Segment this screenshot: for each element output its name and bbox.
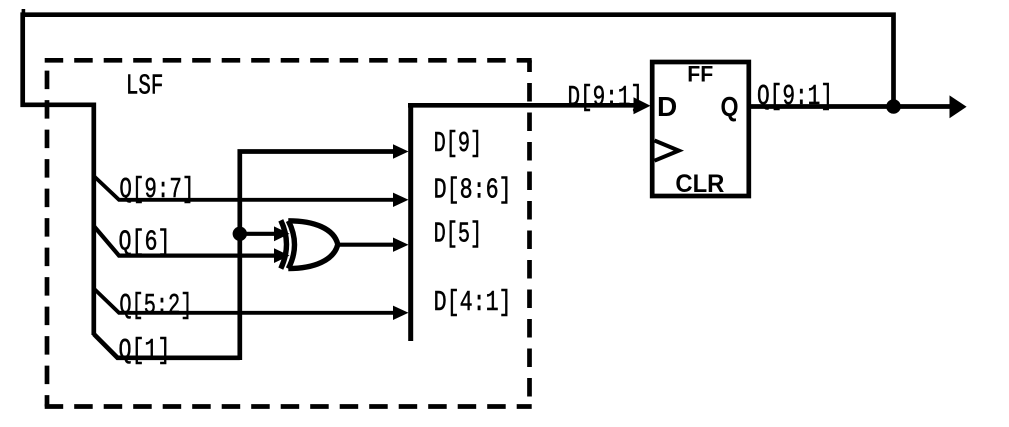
- svg-text:D: D: [657, 91, 677, 122]
- LSF dashed box top edge: [45, 58, 532, 63]
- svg-text:CLR: CLR: [675, 170, 724, 198]
- left bus wire: [91, 103, 96, 336]
- xor gate U1: [281, 220, 338, 268]
- svg-text:FF: FF: [687, 62, 713, 87]
- svg-text:LSF: LSF: [126, 70, 163, 103]
- svg-text:Q: Q: [721, 91, 739, 122]
- svg-text:Q[9:7]: Q[9:7]: [119, 173, 194, 206]
- svg-text:Q[5:2]: Q[5:2]: [119, 289, 192, 322]
- LSF dashed box right edge: [527, 60, 532, 406]
- svg-text:D[4:1]: D[4:1]: [434, 286, 512, 319]
- arrowhead XOR lower input: [274, 248, 290, 263]
- arrowhead into FF D input: [634, 97, 651, 114]
- svg-text:Q[9:1]: Q[9:1]: [757, 80, 833, 113]
- arrowhead D[5]: [393, 238, 409, 252]
- node: output junction: [886, 99, 901, 114]
- LSF dashed box left edge: [45, 60, 50, 406]
- svg-text:D[8:6]: D[8:6]: [434, 174, 512, 207]
- wire D[9:1]: [408, 103, 635, 108]
- wire Q[1] riser to D[9]: [240, 152, 394, 361]
- wire Q[1] tap: [94, 334, 240, 358]
- arrowhead output: [950, 95, 967, 118]
- svg-text:Q[1]: Q[1]: [119, 334, 171, 367]
- svg-text:D[5]: D[5]: [434, 218, 483, 251]
- right bus wire: [408, 103, 413, 341]
- wire Q[5:2] tap: [94, 289, 394, 313]
- svg-text:D[9]: D[9]: [434, 127, 483, 160]
- arrowhead D[4:1]: [393, 306, 409, 320]
- node: XOR tap junction: [233, 227, 247, 241]
- feedback wire (from output junction up, across top, down left side, into LSF): [23, 15, 894, 108]
- svg-text:Q[6]: Q[6]: [119, 226, 171, 259]
- flip-flop U1 box: [652, 62, 749, 196]
- LSF dashed box bottom edge: [45, 404, 532, 409]
- wire XOR output to D[5]: [336, 243, 394, 247]
- wire Q[6] tap: [94, 226, 275, 256]
- wire Q[9:1]: [751, 104, 950, 109]
- arrowhead D[8:6]: [393, 193, 409, 207]
- arrowhead XOR upper input: [274, 226, 290, 241]
- arrowhead D[9]: [393, 144, 409, 158]
- wire Q[9:7] tap: [94, 176, 394, 200]
- clock input triangle: [655, 141, 679, 161]
- svg-text:D[9:1]: D[9:1]: [568, 81, 644, 114]
- wire junction to XOR upper input: [245, 232, 275, 236]
- wire corner nub top-left: [22, 9, 26, 15]
